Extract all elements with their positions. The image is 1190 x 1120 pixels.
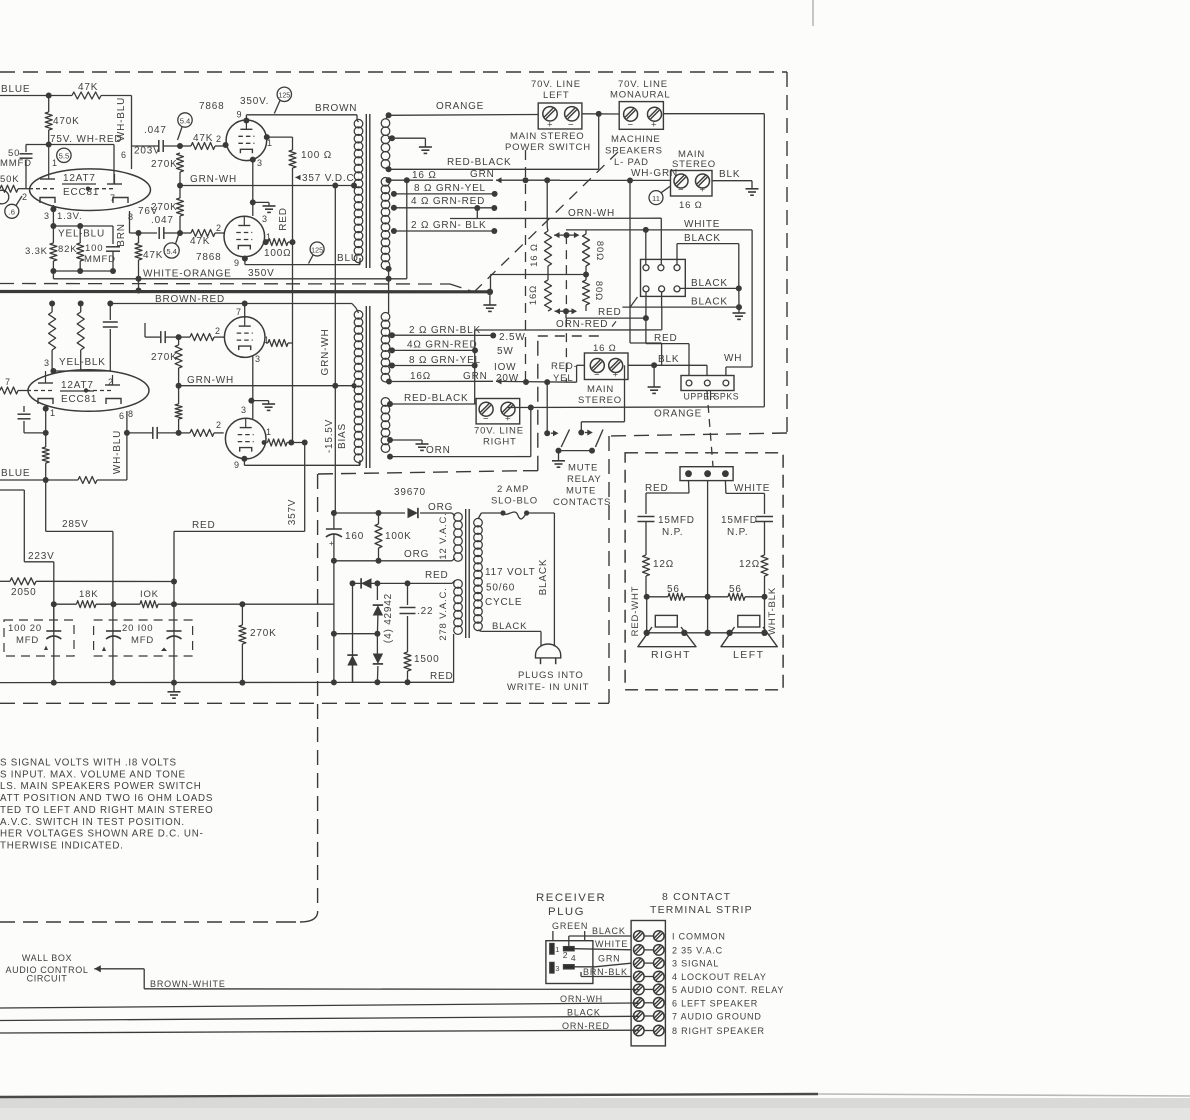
svg-text:STEREO: STEREO <box>578 395 622 406</box>
svg-text:BLACK: BLACK <box>684 233 721 244</box>
plug pin 2 <box>563 947 574 960</box>
svg-text:ORN-RED: ORN-RED <box>562 1021 610 1031</box>
svg-text:2: 2 <box>216 223 222 233</box>
resistor 50K lower input <box>0 387 27 394</box>
screw terminal MONAURAL minus <box>624 107 638 130</box>
dashed border bottom <box>0 702 609 704</box>
switch contact top middle <box>658 265 664 271</box>
svg-text:7: 7 <box>5 377 11 387</box>
svg-text:HER VOLTAGES SHOWN ARE D.C. UN: HER VOLTAGES SHOWN ARE D.C. UN- <box>0 829 204 840</box>
svg-text:8 RIGHT SPEAKER: 8 RIGHT SPEAKER <box>672 1026 765 1036</box>
switch contact bottom right <box>674 286 680 292</box>
svg-text:56: 56 <box>667 584 680 595</box>
svg-text:125: 125 <box>311 246 323 254</box>
svg-text:A.V.C. SWITCH IN TEST POSITION: A.V.C. SWITCH IN TEST POSITION. <box>0 817 185 828</box>
wire RED plate supply vertical <box>278 168 293 443</box>
svg-text:−: − <box>628 120 634 131</box>
wire WH-BLU vertical <box>116 96 132 170</box>
svg-text:GRN-WH: GRN-WH <box>190 174 237 185</box>
svg-text:RED-BLACK: RED-BLACK <box>447 157 511 168</box>
dashed border power right riser <box>523 336 538 471</box>
svg-text:BLUE: BLUE <box>1 84 30 95</box>
svg-text:12AT7: 12AT7 <box>61 380 94 391</box>
svg-text:18K: 18K <box>79 589 98 600</box>
svg-text:56: 56 <box>729 584 742 595</box>
svg-text:GRN: GRN <box>470 169 495 180</box>
svg-text:4: 4 <box>571 953 576 963</box>
plug symbol <box>536 644 561 664</box>
svg-text:ORN-WH: ORN-WH <box>568 208 615 219</box>
T2 tap 8 ohm <box>389 355 519 384</box>
ground on BLK row <box>648 365 661 393</box>
wire plug WHITE <box>574 939 631 950</box>
dashed border section mid <box>318 471 523 474</box>
fuse 2A <box>478 510 554 519</box>
svg-text:270K: 270K <box>151 159 178 170</box>
tube V4 7868 upper-lower <box>224 317 265 358</box>
resistor 100K <box>375 513 412 561</box>
wire 223V drop <box>0 490 55 683</box>
wire ORN-WH bottom <box>0 994 639 1008</box>
capacitor box 1 dashed <box>4 620 74 656</box>
receiver plug box <box>546 931 593 984</box>
svg-text:BLACK: BLACK <box>567 1008 601 1018</box>
plug pin 3 <box>550 962 560 973</box>
screw terminal 70V LEFT plus <box>565 107 579 131</box>
resistor 82K <box>58 226 84 271</box>
wire ORN-RED row <box>475 307 662 404</box>
wire V6 pin9 to T2 <box>241 456 360 466</box>
transformer T1 secondary main winding <box>381 178 390 270</box>
diode bridge D4 down-point <box>373 634 383 686</box>
label 8 CONTACT TERMINAL STRIP <box>650 892 753 916</box>
wire RED row B+ <box>174 520 305 683</box>
svg-text:−: − <box>483 414 489 425</box>
terminal box 70V LINE LEFT <box>531 79 582 129</box>
ground below BLACK <box>733 307 746 319</box>
svg-text:47K: 47K <box>193 133 213 144</box>
svg-text:GRN: GRN <box>463 371 488 382</box>
label terminal 1 <box>672 932 726 942</box>
svg-text:WALL BOX: WALL BOX <box>22 953 72 963</box>
tube V2 7868 upper <box>199 96 269 161</box>
dashed divider line left <box>0 284 474 293</box>
svg-text:BLACK: BLACK <box>691 297 728 308</box>
svg-text:7 AUDIO GROUND: 7 AUDIO GROUND <box>672 1012 762 1022</box>
label 39670 <box>394 487 426 498</box>
terminal box MAIN STEREO 16 ohm <box>671 149 717 211</box>
wire right cab down <box>647 597 765 633</box>
svg-text:WHITE: WHITE <box>734 483 770 494</box>
resistor 47K (top row) <box>72 82 101 99</box>
resistor YEL-BLK a <box>49 301 56 372</box>
page mark top right <box>812 0 814 26</box>
label RED-WHT <box>630 586 641 637</box>
svg-text:125: 125 <box>278 92 290 100</box>
svg-text:UPPER: UPPER <box>684 392 717 402</box>
label MUTE RELAY MUTE CONTACTS <box>553 463 611 509</box>
label terminal 7 <box>672 1012 762 1022</box>
dashed L-pad link 1 <box>525 150 527 382</box>
svg-text:82K: 82K <box>58 244 77 255</box>
label GREEN <box>552 921 588 931</box>
label RECEIVER PLUG <box>536 892 606 918</box>
wire V3 pin9 to BLU <box>242 253 360 265</box>
wire BLK to strip <box>706 365 708 375</box>
screw terminal lower stereo minus <box>590 359 604 381</box>
wire main ground bus <box>0 679 353 685</box>
wire MONAURAL to ORANGE row <box>663 114 764 407</box>
resistor 12 ohm right <box>643 555 675 597</box>
wire 75V WH-RED row <box>29 142 115 185</box>
wire row 433 left <box>24 432 46 434</box>
svg-text:117 VOLT: 117 VOLT <box>485 567 536 578</box>
svg-text:−: − <box>568 120 574 131</box>
svg-text:ECC81: ECC81 <box>61 394 97 405</box>
svg-text:7868: 7868 <box>199 101 224 112</box>
svg-text:3 SIGNAL: 3 SIGNAL <box>672 959 719 969</box>
screw terminal stereo minus <box>674 174 688 196</box>
wire V1 pin3 cathode <box>50 205 82 226</box>
svg-text:BROWN: BROWN <box>315 103 357 114</box>
svg-text:RELAY: RELAY <box>567 474 602 485</box>
test point circle .6 <box>5 196 22 218</box>
capacitor .047 (first) <box>132 125 181 157</box>
pin labels V5 <box>5 358 134 421</box>
wire plug BLACK <box>569 926 631 947</box>
label 117 VOLT 50/60 CYCLE <box>485 567 536 608</box>
dashed link from UPPER SPKS <box>707 391 713 467</box>
svg-text:CIRCUIT: CIRCUIT <box>27 974 68 984</box>
resistor anode V4 <box>266 340 293 347</box>
svg-text:RED: RED <box>598 307 622 318</box>
wire V5 pin1 to row <box>43 406 49 436</box>
capacitor 100 MFD c <box>161 631 182 651</box>
svg-text:BLACK: BLACK <box>592 926 626 936</box>
svg-text:RED-: RED- <box>551 361 578 372</box>
ground pin3 lower <box>262 401 275 411</box>
T1 tap 8 ohm GRN-YEL <box>391 183 498 197</box>
screw terminal 70V RIGHT plus <box>501 402 515 424</box>
svg-text:8: 8 <box>128 409 134 419</box>
T2 tap 4 ohm <box>389 340 514 358</box>
speaker LEFT <box>721 615 777 646</box>
terminal 1 screws <box>634 931 665 942</box>
dashed border corner to bottom <box>278 913 318 922</box>
svg-text:YEL: YEL <box>58 229 79 240</box>
wire GRN-WH feedback vertical <box>320 186 338 514</box>
svg-text:2.5W: 2.5W <box>499 332 526 343</box>
mute contact 1 throw <box>556 448 562 454</box>
notes text block <box>0 758 214 852</box>
svg-text:.047: .047 <box>151 215 174 226</box>
leader slash 2 <box>631 297 638 307</box>
wire BROWN-RED row2 <box>107 301 356 309</box>
pin labels V6 <box>216 405 272 470</box>
T1 secondary bottom lead <box>386 266 392 313</box>
diode bridge D2 up-point <box>347 655 357 682</box>
svg-text:350V: 350V <box>248 268 275 279</box>
svg-text:MUTE: MUTE <box>568 463 598 474</box>
wire WHITE down right side <box>751 230 753 367</box>
svg-text:(4) 42942: (4) 42942 <box>383 593 394 643</box>
svg-text:3: 3 <box>555 964 559 973</box>
svg-text:BLACK: BLACK <box>691 278 728 289</box>
leader slash 1 <box>612 321 616 326</box>
svg-text:6: 6 <box>121 150 127 160</box>
svg-text:2050: 2050 <box>11 587 36 598</box>
wire WHITE cab <box>725 481 770 514</box>
wire V2 pin2 <box>223 142 229 148</box>
svg-text:15MFD: 15MFD <box>721 515 758 526</box>
svg-text:2: 2 <box>215 326 221 336</box>
svg-text:+: + <box>613 370 619 381</box>
capacitor 15MFD right <box>638 515 695 555</box>
screw terminal 70V RIGHT minus <box>479 402 493 424</box>
svg-text:MMFD: MMFD <box>0 158 32 169</box>
mute contact 2 pole <box>578 365 624 435</box>
svg-text:470K: 470K <box>53 116 80 127</box>
svg-text:16Ω: 16Ω <box>528 285 539 305</box>
test point circle 5.4 second <box>164 235 179 258</box>
label 2.5W <box>490 332 525 343</box>
svg-text:WH-BLU: WH-BLU <box>112 430 123 474</box>
capacitor 20 MFD b <box>102 623 154 651</box>
svg-text:RED: RED <box>430 671 454 682</box>
svg-text:350V.: 350V. <box>240 96 269 107</box>
svg-text:RED: RED <box>654 333 678 344</box>
svg-text:BLK: BLK <box>658 354 679 365</box>
wire BLACK 2 <box>680 278 739 289</box>
terminal box 70V LINE RIGHT <box>474 399 524 448</box>
wire BROWN-WHITE <box>144 979 639 989</box>
svg-text:2 Ω GRN-BLK: 2 Ω GRN-BLK <box>409 325 481 336</box>
transformer T1 primary winding <box>354 119 363 264</box>
svg-text:−: − <box>594 370 600 381</box>
resistor 100 ohm lower <box>263 239 296 259</box>
svg-text:ECC81: ECC81 <box>63 187 99 198</box>
wire BLK to ground <box>712 169 759 195</box>
svg-text:-15.5V: -15.5V <box>324 419 335 453</box>
wire plug BRN-BLK <box>581 967 631 977</box>
svg-text:ORANGE: ORANGE <box>654 409 702 420</box>
resistor 270K lower b <box>175 386 182 433</box>
label (4) 42942 <box>383 593 394 643</box>
wire WH-GRN row to 16ohm box <box>523 168 679 184</box>
wire BLK row <box>628 354 707 368</box>
svg-text:9: 9 <box>234 460 240 470</box>
T2 tap 2 ohm <box>389 325 494 338</box>
svg-text:278 V.A.C.: 278 V.A.C. <box>438 587 449 640</box>
svg-text:L- PAD: L- PAD <box>614 157 649 168</box>
svg-text:16 Ω: 16 Ω <box>679 200 703 211</box>
tube V5 triode A internals <box>27 371 54 404</box>
wire WH to strip <box>724 353 752 376</box>
dashed border step <box>609 433 787 436</box>
mute contact 2 blade <box>595 430 603 448</box>
wire L-pad bottoms row <box>491 272 590 292</box>
T1 tap 2 ohm GRN-BLK <box>391 220 497 234</box>
wire BLUE row lower <box>0 468 49 483</box>
svg-text:357V: 357V <box>287 499 298 526</box>
label 75V. WH-RED <box>50 134 122 145</box>
relay switch block <box>641 259 686 296</box>
transformer T2 core <box>366 306 370 468</box>
wire YEL-BLU row <box>50 223 113 244</box>
label terminal 8 <box>672 1026 765 1036</box>
svg-text:8 Ω GRN-YEL: 8 Ω GRN-YEL <box>414 183 486 194</box>
svg-text:WRITE- IN UNIT: WRITE- IN UNIT <box>507 682 589 693</box>
resistor 270K B+ <box>239 604 277 682</box>
svg-text:IOW: IOW <box>494 362 516 373</box>
svg-text:3: 3 <box>257 158 263 168</box>
wire supply bottom rail <box>353 634 454 685</box>
label YEL-BLK <box>59 357 106 368</box>
svg-text:100K: 100K <box>385 531 412 542</box>
svg-text:MFD: MFD <box>16 635 39 646</box>
svg-text:RIGHT: RIGHT <box>651 650 691 661</box>
capacitor YEL-BLK <box>103 304 118 346</box>
svg-text:RECEIVER: RECEIVER <box>536 892 606 904</box>
svg-text:GRN: GRN <box>598 954 621 964</box>
test point circle 6 left edge <box>0 190 9 204</box>
screw terminal lower stereo plus <box>609 359 623 381</box>
label LEFT <box>733 650 765 661</box>
svg-text:6: 6 <box>119 411 125 421</box>
terminal 8 screws <box>634 1025 665 1036</box>
resistor 80 ohm L-pad lower <box>583 275 605 312</box>
wire YEL-BLK row <box>50 345 110 374</box>
svg-text:50K: 50K <box>0 174 19 185</box>
svg-text:5.4: 5.4 <box>180 116 191 125</box>
wire GRN-WH row upper <box>177 174 357 189</box>
svg-text:3: 3 <box>44 211 50 221</box>
svg-text:7: 7 <box>236 307 242 317</box>
wire BLACK 1 <box>677 233 742 291</box>
tube V1 triode A internals <box>29 145 56 204</box>
svg-text:270K: 270K <box>250 628 277 639</box>
wire to wall box with arrow <box>94 965 144 989</box>
screw terminal stereo plus <box>696 174 710 196</box>
dashed L-PAD leader diagonal <box>474 148 622 292</box>
svg-text:LEFT: LEFT <box>733 650 765 661</box>
svg-text:12 V.A.C.: 12 V.A.C. <box>438 512 449 559</box>
svg-text:203V: 203V <box>134 146 161 157</box>
svg-text:2: 2 <box>108 377 114 387</box>
tube V5 triode B internals <box>84 375 121 404</box>
svg-text:75V. WH-RED: 75V. WH-RED <box>50 134 122 145</box>
svg-text:YEL: YEL <box>553 373 573 384</box>
svg-text:RED: RED <box>425 570 449 581</box>
svg-text:ORANGE: ORANGE <box>436 101 484 112</box>
label UPPER SPKS <box>684 391 740 402</box>
wire V4 pin7 riser <box>244 304 246 319</box>
svg-text:BLACK: BLACK <box>538 559 549 596</box>
wire bridge mid rail <box>334 633 378 635</box>
resistor 47K grid V2A <box>177 133 226 150</box>
svg-text:20W: 20W <box>496 373 519 384</box>
svg-text:SPEAKERS: SPEAKERS <box>605 146 663 157</box>
T1 70V tap ORANGE <box>386 101 539 119</box>
svg-text:RIGHT: RIGHT <box>483 437 517 448</box>
wire RED jog to upper spks <box>646 318 689 375</box>
dashed border bottom-left <box>0 921 278 923</box>
svg-text:−: − <box>678 185 684 196</box>
label WHT-BLK <box>767 587 778 635</box>
label MACHINE SPEAKERS L-PAD <box>605 134 663 168</box>
tube V6 7868 bottom <box>225 418 266 459</box>
svg-text:+: + <box>700 185 706 196</box>
wiper arrows L-pad lower <box>555 308 578 318</box>
svg-text:THERWISE INDICATED.: THERWISE INDICATED. <box>0 841 124 852</box>
svg-text:PLUGS INTO: PLUGS INTO <box>518 670 584 681</box>
label terminal 5 <box>672 985 784 995</box>
label BLUE <box>1 84 30 95</box>
wire left supply vertical <box>331 561 337 683</box>
resistor 12 ohm left <box>739 555 768 597</box>
resistor 100ohm V6 <box>262 439 308 446</box>
capacitor 160 <box>326 513 364 561</box>
tube V3 7868 lower <box>196 216 275 279</box>
transformer T1 secondary 70V winding <box>381 119 390 168</box>
svg-text:WHITE: WHITE <box>595 939 628 949</box>
svg-text:1: 1 <box>266 427 272 437</box>
svg-text:7: 7 <box>110 193 116 203</box>
svg-text:MONAURAL: MONAURAL <box>610 90 670 101</box>
wire component bottoms row <box>50 268 116 279</box>
wire 16 ohm GRN row2 <box>392 371 493 382</box>
svg-text:.22: .22 <box>417 606 433 617</box>
dashed L-pad link 2 <box>565 235 567 382</box>
svg-text:LEFT: LEFT <box>543 90 570 101</box>
svg-text:S SIGNAL VOLTS WITH .I8 VOLTS: S SIGNAL VOLTS WITH .I8 VOLTS <box>0 758 177 769</box>
wire ORG row top <box>331 502 453 516</box>
svg-text:223V: 223V <box>28 551 55 562</box>
wire BLACK bottom <box>0 1008 639 1021</box>
dashed border right <box>786 72 788 433</box>
resistor 47K grid V2B <box>177 230 225 248</box>
svg-text:YEL-BLK: YEL-BLK <box>59 357 106 368</box>
svg-text:+: + <box>329 538 334 548</box>
test point circle 125 second <box>309 242 325 264</box>
svg-text:BLK: BLK <box>719 169 740 180</box>
svg-text:N.P.: N.P. <box>727 527 748 538</box>
tube V1 triode B internals <box>86 174 128 203</box>
label BROWN-RED <box>155 294 225 305</box>
wire ORN-WH row <box>450 208 661 264</box>
svg-text:7868: 7868 <box>196 252 221 263</box>
wire WH-GRN drop <box>630 181 662 365</box>
terminal 2 screws <box>634 945 665 956</box>
resistor 80 ohm L-pad upper <box>583 230 606 275</box>
svg-text:9: 9 <box>237 110 243 120</box>
dashed border top <box>0 71 787 73</box>
pin labels V1 <box>22 150 134 222</box>
ground mute <box>552 451 565 468</box>
tube V5 12AT7 ECC81 envelope lower <box>28 370 149 412</box>
svg-text:5.4: 5.4 <box>166 247 177 256</box>
capacitor 50 MMFD <box>0 145 33 189</box>
svg-text:RED: RED <box>278 207 289 231</box>
terminal 4 screws <box>634 971 665 982</box>
wire 70V LEFT to MONAURAL <box>582 111 619 117</box>
T2 tap 16 ohm <box>386 379 392 385</box>
wire BLACK winding bottom <box>478 621 541 647</box>
svg-text:5 AUDIO CONT. RELAY: 5 AUDIO CONT. RELAY <box>672 985 784 995</box>
label terminal 2 <box>672 945 723 955</box>
svg-text:.047: .047 <box>144 125 167 136</box>
svg-text:4 LOCKOUT RELAY: 4 LOCKOUT RELAY <box>672 972 767 982</box>
